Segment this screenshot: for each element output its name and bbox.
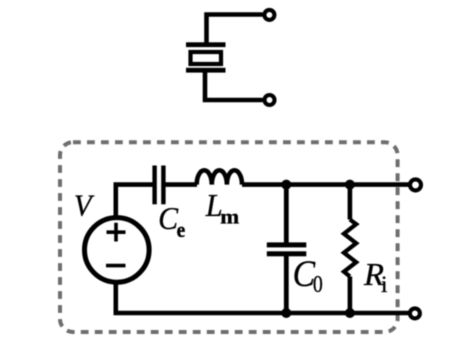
crystal X1 body [191,52,222,64]
inductor Lm [197,170,242,184]
wire top rail Lm to output terminal [242,182,409,187]
wire crystal bottom lead [205,72,263,100]
node junction bottom Ri [345,308,355,318]
wire Ce to Lm [166,182,198,187]
wire Ri lower stem [348,277,353,314]
wire C0 upper stem [284,185,289,243]
capacitor C0 top plate [267,242,307,247]
node junction top Ri [345,180,355,190]
wire V top to capacitor Ce [116,185,153,216]
svg-text:i: i [381,272,387,298]
terminal output bottom [410,308,420,318]
minus sign [106,264,126,268]
svg-text:0: 0 [313,272,323,298]
node junction top C0 [281,180,291,190]
terminal top crystal [264,10,274,20]
svg-text:e: e [177,218,186,242]
crystal X1 bottom plate [186,68,226,73]
crystal X1 top plate [186,42,226,47]
wire Ri upper stem [348,185,353,220]
wire C0 lower stem [284,256,289,313]
resistor Ri zigzag [344,220,356,277]
capacitor C0 bottom plate [267,251,307,256]
terminal output top [410,179,421,190]
dashed equivalent-circuit box [60,142,398,332]
svg-text:m: m [220,204,239,228]
terminal bottom crystal [265,95,275,105]
wire crystal top lead [207,15,263,43]
capacitor Ce left plate [152,166,156,205]
voltage source V [85,218,150,283]
plus sign [107,223,126,242]
wire V bottom and bottom rail [116,282,409,313]
node junction bottom C0 [281,308,291,318]
capacitor Ce right plate [161,166,165,205]
